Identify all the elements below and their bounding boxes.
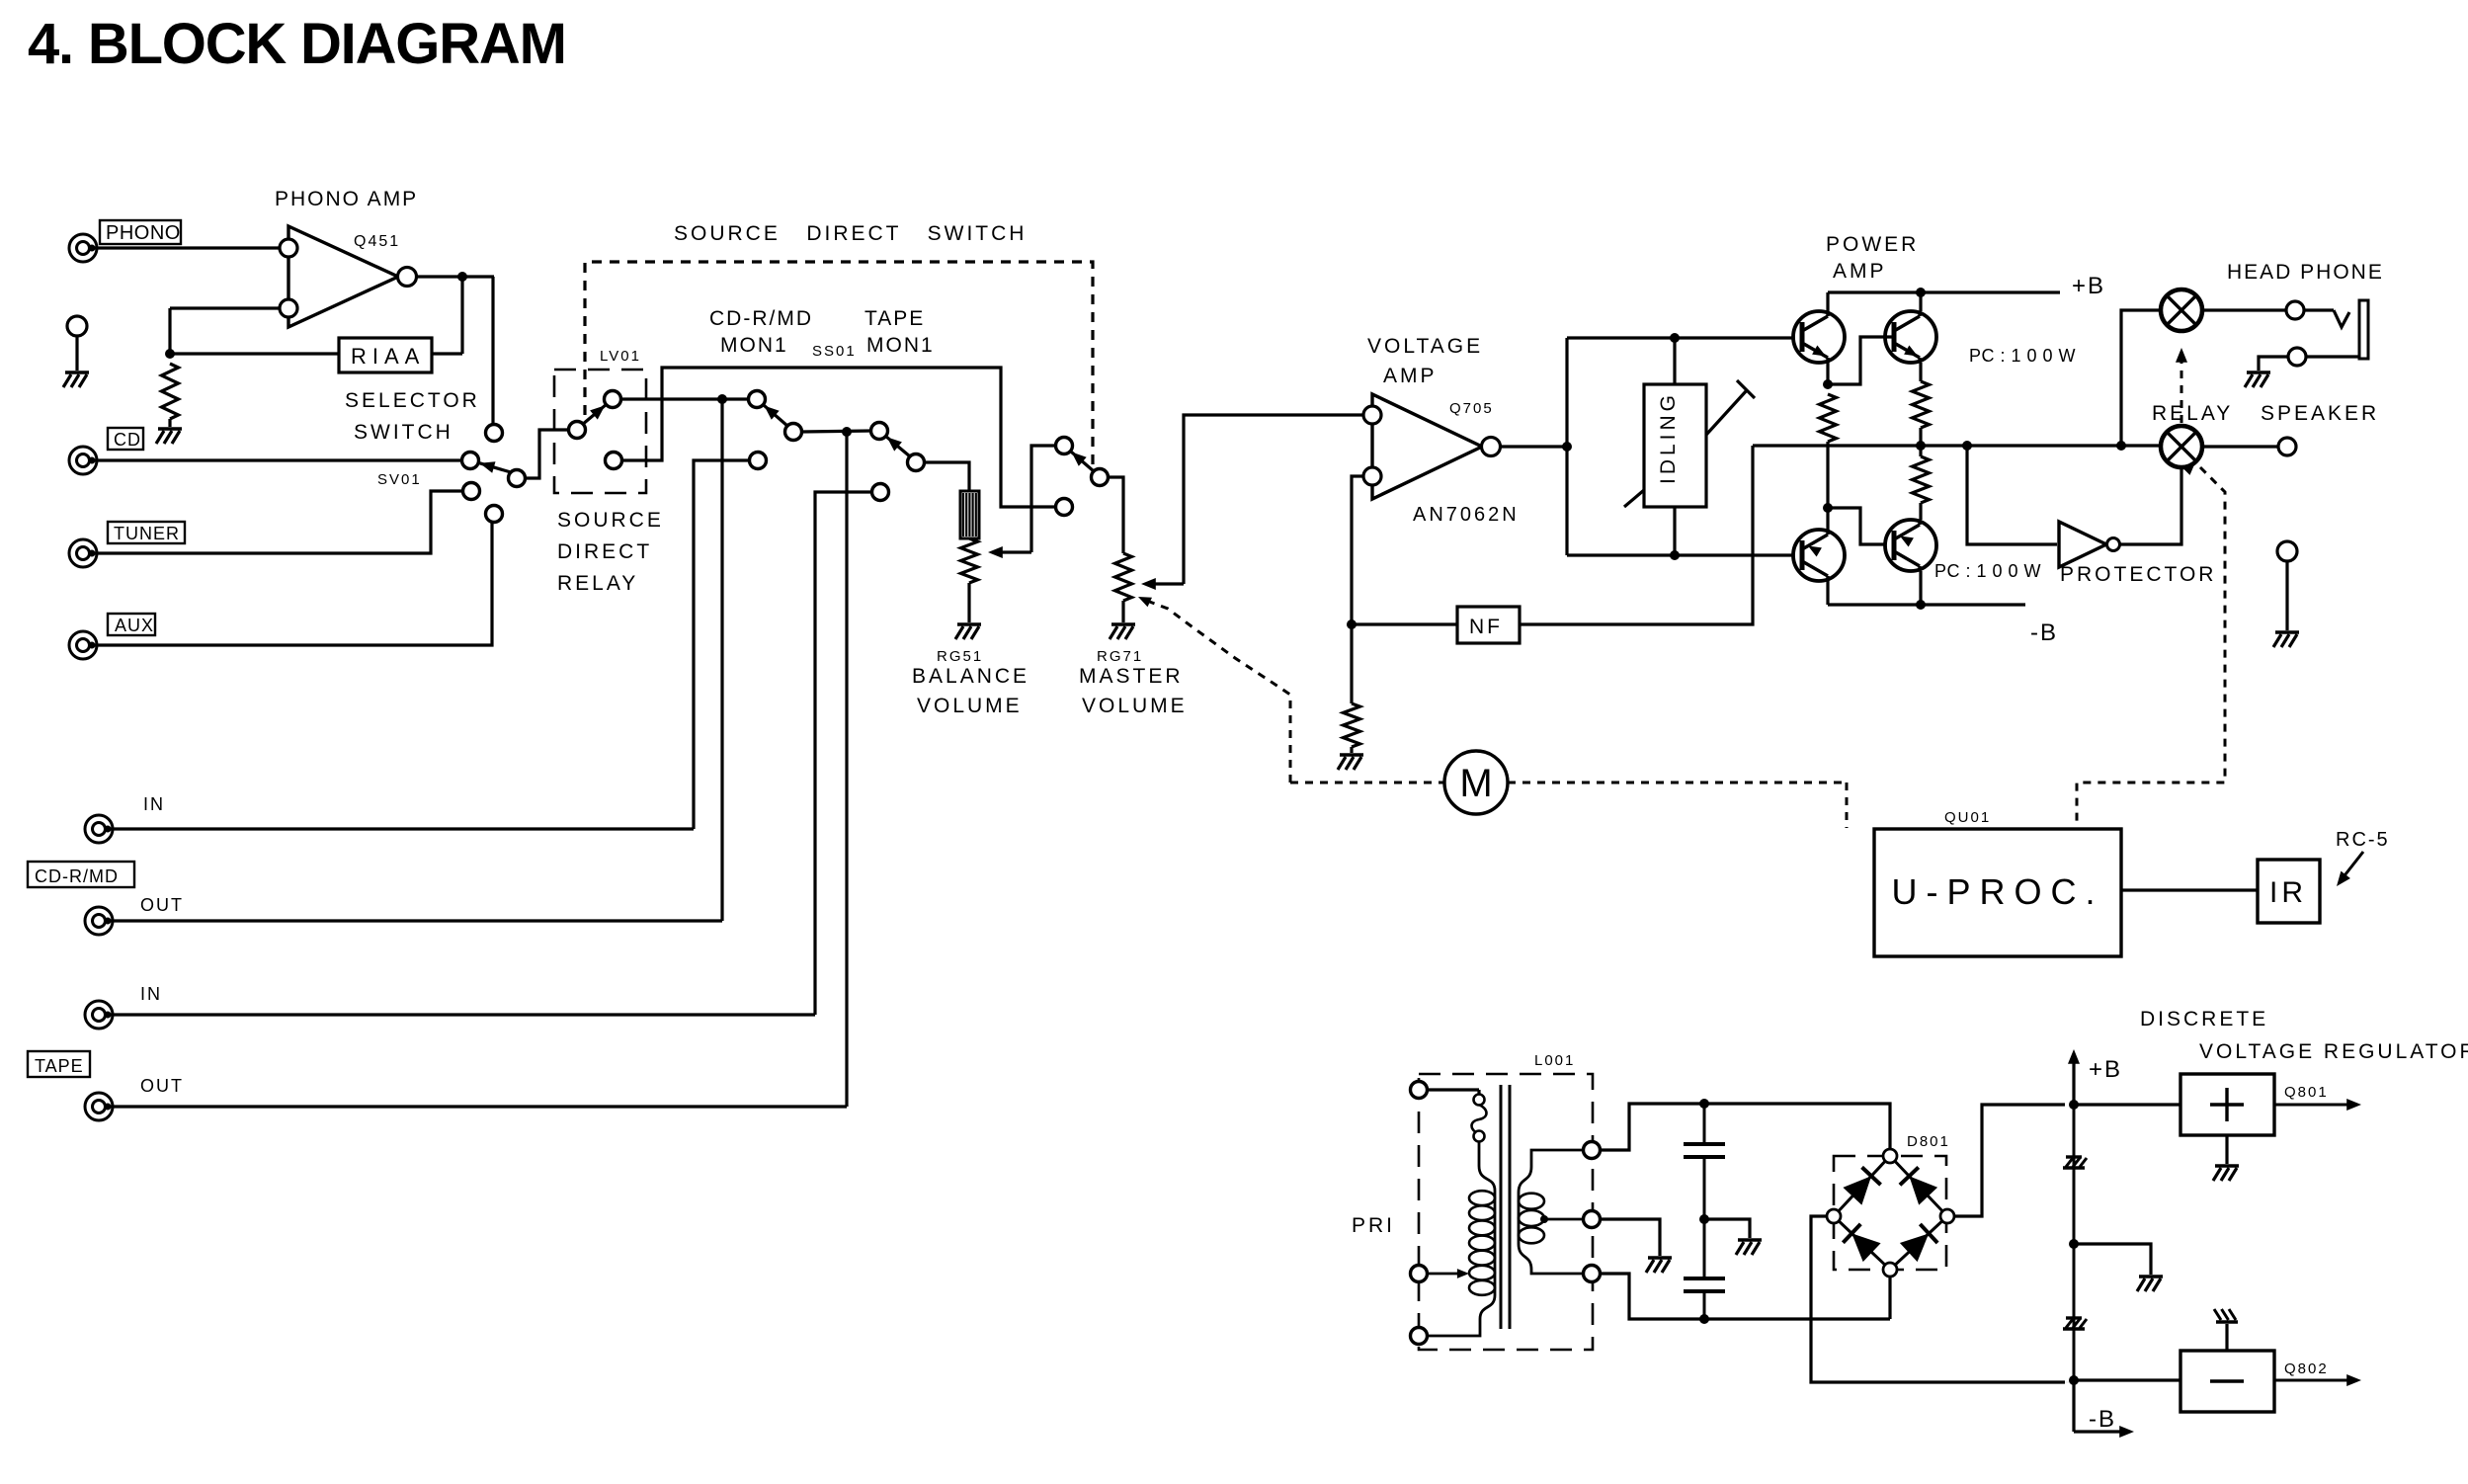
svg-text:Q801: Q801	[2284, 1084, 2329, 1101]
text DISCRETE	[2140, 1008, 2268, 1031]
label TAPE	[28, 1051, 90, 1077]
bridge vertex top	[1883, 1149, 1897, 1163]
node protector branch	[1962, 441, 1972, 451]
thermal fuse	[1427, 1090, 1495, 1191]
svg-text:CD: CD	[114, 430, 141, 450]
svg-text:M: M	[1459, 762, 1492, 805]
relay LV01 contacts	[569, 391, 622, 469]
regulator Q801 box	[2180, 1074, 2329, 1135]
wire secondary bottom to rail	[1600, 1274, 1890, 1319]
svg-text:SOURCE DIRECT SWITCH: SOURCE DIRECT SWITCH	[674, 222, 1027, 245]
relay contact speaker	[2161, 426, 2202, 467]
wire TAPE IN	[108, 1013, 815, 1016]
svg-text:SWITCH: SWITCH	[354, 421, 453, 444]
label RG71	[1097, 648, 1143, 665]
svg-text:VOLUME: VOLUME	[1082, 695, 1188, 717]
svg-text:RELAY: RELAY	[557, 572, 638, 595]
svg-text:SOURCE: SOURCE	[557, 509, 664, 532]
-B arrow	[2074, 1380, 2134, 1438]
RCA jack AUX	[69, 631, 97, 659]
source direct switch dashed box	[585, 222, 1093, 469]
resistor RG51	[961, 538, 978, 583]
primary terminal top	[1411, 1082, 1428, 1099]
label CD-R/MD	[28, 862, 134, 887]
node caps mid	[1699, 1214, 1709, 1224]
idling variable arrow	[1624, 380, 1755, 507]
wire protector to relay	[2120, 467, 2181, 544]
svg-text:Q451: Q451	[354, 233, 400, 250]
ground RG51	[955, 624, 981, 639]
svg-text:LV01: LV01	[600, 348, 641, 365]
headphone jack body	[2359, 300, 2368, 359]
svg-text:-B: -B	[2030, 619, 2058, 646]
text PC:100W top	[1969, 346, 2076, 366]
wire Q3 top	[1826, 508, 1829, 530]
wire tape rec-out to TAPE OUT	[845, 432, 848, 1107]
node headphone branch	[2116, 441, 2126, 451]
output rail	[1753, 444, 2161, 447]
node phono amp output	[457, 272, 467, 282]
node idling bottom	[1670, 550, 1680, 560]
transistor Q power-4	[1885, 520, 1936, 571]
selector switch SV01 contacts	[345, 389, 526, 523]
wire -B to regulator	[2065, 1380, 2180, 1382]
wire mid to ground	[2074, 1244, 2163, 1291]
RC-5 arrow	[2337, 852, 2363, 886]
RCA jack CD-R/MD OUT	[85, 895, 184, 935]
ground terminal near phono	[63, 316, 89, 387]
inverted ground Q802	[2214, 1309, 2238, 1351]
dashed motor line left	[1290, 782, 1444, 784]
text PROTECTOR	[2060, 563, 2216, 586]
wire RG51 to ground	[967, 583, 970, 622]
svg-text:PHONO: PHONO	[106, 222, 181, 244]
bridge D801 dashed box	[1834, 1133, 1950, 1270]
label AUX	[108, 614, 155, 635]
text PC:100W bottom	[1934, 561, 2041, 581]
svg-text:+B: +B	[2089, 1056, 2122, 1083]
node Q3 link	[1823, 503, 1833, 513]
label PHONO	[100, 220, 181, 244]
RIAA box	[339, 338, 432, 372]
switch master mon arrow	[1072, 453, 1094, 472]
ground RG71	[1110, 624, 1135, 639]
svg-text:AUX: AUX	[115, 616, 154, 635]
dashed control to speaker relay	[2077, 462, 2225, 828]
svg-text:MASTER: MASTER	[1079, 665, 1184, 688]
wire inverting input to NF	[1352, 476, 1363, 624]
capacitor C1	[1684, 1104, 1725, 1219]
svg-text:DISCRETE: DISCRETE	[2140, 1008, 2268, 1031]
svg-text:OUT: OUT	[140, 895, 184, 915]
RCA jack PHONO	[69, 234, 97, 262]
wire CD to selector	[92, 458, 462, 461]
wire Q4 bottom	[1919, 571, 1922, 605]
text PRI	[1352, 1214, 1395, 1237]
wire op-amp output	[416, 275, 494, 278]
svg-text:RIAA: RIAA	[351, 344, 425, 369]
svg-text:+B: +B	[2072, 273, 2105, 299]
wire voltage amp output	[1500, 445, 1567, 448]
wire tape mon lower contact to TAPE IN	[815, 492, 872, 1015]
wire selector pole to relay	[525, 430, 569, 478]
text HEAD PHONE	[2227, 261, 2384, 284]
text POWER AMP	[1826, 233, 1919, 283]
text SOURCE DIRECT RELAY	[557, 509, 664, 595]
RCA jack TAPE OUT	[85, 1076, 184, 1120]
wire to protector	[1967, 446, 2057, 544]
svg-text:DIRECT: DIRECT	[557, 540, 652, 563]
diode D801-d	[1900, 1224, 1937, 1262]
svg-text:POWER: POWER	[1826, 233, 1919, 256]
resistor RG71	[1115, 553, 1132, 601]
node output Q2	[1916, 441, 1926, 451]
wire CD-R/MD OUT	[108, 919, 722, 922]
selector pole arrow	[480, 461, 511, 473]
text MASTER VOLUME	[1079, 665, 1188, 717]
wire tape mon pole to balance	[924, 462, 969, 491]
switch master mon contacts	[1056, 438, 1109, 516]
text RC-5	[2336, 829, 2390, 851]
svg-text:HEAD PHONE: HEAD PHONE	[2227, 261, 2384, 284]
svg-text:PC : 1 0 0 W: PC : 1 0 0 W	[1969, 346, 2076, 366]
svg-text:QU01: QU01	[1944, 809, 1991, 826]
potentiometer RG51 body	[960, 491, 979, 538]
wire output down to selector	[491, 277, 494, 425]
wire sleeve to ground	[2245, 357, 2288, 387]
secondary winding	[1519, 1150, 1584, 1274]
U-PROC box QU01	[1874, 809, 2121, 956]
svg-text:RG71: RG71	[1097, 648, 1143, 665]
wire mon pole to tape mon	[801, 431, 871, 432]
Q802 output arrow	[2274, 1374, 2361, 1386]
svg-text:SV01: SV01	[377, 471, 422, 488]
node power input junction	[1562, 442, 1572, 452]
svg-text:MON1: MON1	[720, 334, 788, 357]
primary terminal mid	[1411, 1266, 1428, 1282]
title text	[28, 12, 566, 76]
protector inverter	[2059, 522, 2120, 567]
+B arrow up	[2068, 1049, 2122, 1105]
switch CD-R/MD MON1 contacts	[709, 307, 813, 469]
strike ground upper	[2063, 1105, 2087, 1244]
bridge vertex left	[1827, 1209, 1841, 1223]
svg-text:L001: L001	[1534, 1052, 1575, 1069]
primary terminal bottom	[1411, 1328, 1428, 1345]
transformer core	[1501, 1085, 1510, 1329]
op-amp Q451 phono amp	[275, 188, 418, 327]
diode D801-c	[1843, 1224, 1880, 1262]
svg-text:OUT: OUT	[140, 1076, 184, 1096]
svg-text:TAPE: TAPE	[864, 307, 925, 330]
relay LV01 dashed box	[554, 348, 646, 493]
wire to jack spring	[2304, 308, 2334, 311]
regulator Q802 box	[2180, 1351, 2329, 1412]
svg-text:SELECTOR: SELECTOR	[345, 389, 480, 412]
motor M	[1444, 751, 1508, 814]
svg-text:IN: IN	[140, 984, 162, 1004]
wire mon lower contact to CD-R/MD IN	[694, 460, 750, 829]
wire +B to regulator	[2074, 1103, 2180, 1106]
node rec-out branch	[717, 394, 727, 404]
IR box	[2258, 860, 2320, 923]
wire secondary top to rail	[1600, 1104, 1890, 1150]
dashed arrow relay link	[2176, 348, 2187, 423]
wire Q1 collector to +B rail	[1826, 292, 1829, 311]
wire CD-R/MD IN	[108, 827, 694, 830]
wire RG71 to ground	[1121, 601, 1124, 622]
svg-text:VOLTAGE: VOLTAGE	[1367, 335, 1483, 358]
node NF junction	[1347, 619, 1357, 629]
node -B junction	[2069, 1375, 2079, 1385]
svg-text:Q802: Q802	[2284, 1360, 2329, 1377]
svg-text:4. BLOCK DIAGRAM: 4. BLOCK DIAGRAM	[28, 12, 566, 76]
speaker terminal	[2278, 438, 2296, 455]
wire to headphone relay	[2121, 310, 2161, 446]
headphone jack spring	[2334, 310, 2349, 327]
wire phono jack to amp input	[92, 246, 280, 249]
svg-text:RC-5: RC-5	[2336, 829, 2390, 851]
secondary tap	[1540, 1215, 1584, 1223]
node tape rec-out branch	[842, 427, 852, 437]
wire sleeve to jack	[2306, 355, 2359, 358]
ground under phono resistor	[156, 419, 182, 444]
wire U-PROC to IR	[2121, 888, 2258, 891]
capacitor C2	[1684, 1219, 1725, 1319]
svg-text:VOLUME: VOLUME	[917, 695, 1023, 717]
secondary terminal top	[1584, 1142, 1601, 1159]
strike ground lower	[2063, 1244, 2087, 1380]
RCA jack CD	[69, 447, 97, 474]
wire drive splitter	[1567, 338, 1795, 555]
RCA jack TAPE IN	[85, 984, 162, 1029]
text SPEAKER	[2261, 402, 2379, 425]
svg-text:-B: -B	[2089, 1406, 2116, 1433]
wire master pole to RG71	[1108, 477, 1123, 553]
headphone sleeve terminal	[2288, 348, 2306, 366]
bridge diamond	[1834, 1156, 1947, 1270]
wire feedback top	[432, 277, 462, 354]
label TUNER	[108, 522, 185, 543]
label RG51	[937, 648, 983, 665]
svg-text:CD-R/MD: CD-R/MD	[35, 866, 119, 886]
svg-text:IR: IR	[2269, 876, 2307, 909]
svg-text:PC : 1 0 0 W: PC : 1 0 0 W	[1934, 561, 2041, 581]
NF box	[1457, 607, 1520, 643]
svg-text:Q705: Q705	[1449, 400, 1494, 417]
transistor Q power-1	[1793, 311, 1845, 363]
svg-text:VOLTAGE REGULATOR: VOLTAGE REGULATOR	[2199, 1040, 2468, 1063]
svg-text:RELAY: RELAY	[2152, 402, 2233, 425]
switch TAPE MON1 contacts	[812, 307, 935, 501]
svg-text:PRI: PRI	[1352, 1214, 1395, 1237]
resistor phono load	[162, 364, 179, 419]
wire feedback to inverting input	[170, 308, 339, 354]
label CD	[108, 428, 143, 450]
svg-text:D801: D801	[1907, 1133, 1950, 1150]
wire AUX to selector	[92, 522, 492, 645]
RCA jack TUNER	[69, 539, 97, 567]
svg-text:SPEAKER: SPEAKER	[2261, 402, 2379, 425]
switch CD-R/MD MON1 arrow	[765, 406, 788, 426]
svg-text:TUNER: TUNER	[114, 524, 180, 543]
wire Q2 collector	[1919, 292, 1922, 311]
svg-text:SS01: SS01	[812, 343, 857, 360]
resistor voltage amp ground leg	[1344, 703, 1360, 747]
svg-text:AMP: AMP	[1833, 260, 1887, 283]
wire Q3 emitter to -B rail	[1826, 581, 1829, 605]
wiper RG71 to voltage amp	[1141, 415, 1362, 590]
node cap2 bottom	[1699, 1314, 1709, 1324]
diode D801-a	[1843, 1167, 1880, 1204]
dashed motor line right	[1508, 783, 1847, 828]
bridge vertex bottom	[1883, 1263, 1897, 1277]
secondary terminal mid	[1584, 1211, 1601, 1228]
wire caps mid to ground	[1704, 1219, 1762, 1255]
op-amp Q705 voltage amp	[1363, 335, 1520, 526]
wire TAPE OUT	[108, 1105, 847, 1108]
node +B Q2	[1916, 288, 1926, 297]
relay LV01 arrow	[582, 405, 605, 425]
wire lower pair link	[1828, 447, 1894, 544]
Q801 output arrow	[2274, 1099, 2361, 1111]
speaker ground terminal	[2273, 541, 2299, 647]
svg-text:AN7062N: AN7062N	[1413, 504, 1520, 526]
text BALANCE VOLUME	[912, 665, 1029, 717]
text VOLTAGE REGULATOR	[2199, 1040, 2468, 1063]
text RELAY	[2152, 402, 2233, 425]
wire LV01 upper contact to mon switch	[620, 397, 749, 400]
wire NF right to output rail	[1520, 446, 1753, 624]
relay contact headphone	[2161, 289, 2202, 331]
wire bridge bottom	[1888, 1277, 1891, 1319]
svg-text:PROTECTOR: PROTECTOR	[2060, 563, 2216, 586]
svg-text:PHONO AMP: PHONO AMP	[275, 188, 418, 210]
node cap1 top	[1699, 1099, 1709, 1109]
svg-text:U-PROC.: U-PROC.	[1892, 871, 2104, 912]
transistor Q power-3	[1793, 530, 1845, 581]
node -B Q4	[1916, 600, 1926, 610]
primary tap arrow	[1427, 1269, 1469, 1278]
svg-text:NF: NF	[1469, 616, 1503, 638]
wiper arrow RG51	[988, 446, 1056, 558]
secondary terminal bottom	[1584, 1266, 1601, 1282]
headphone tip terminal	[2286, 301, 2304, 319]
wire relay to speaker terminal	[2202, 445, 2279, 448]
wire NF left	[1352, 622, 1457, 625]
primary winding	[1427, 1191, 1495, 1336]
svg-text:TAPE: TAPE	[35, 1056, 84, 1076]
wire TUNER to selector	[92, 491, 463, 553]
IDLING box	[1644, 338, 1706, 555]
resistor emitter Q1	[1820, 394, 1837, 447]
wire headphone relay to jack	[2202, 308, 2287, 311]
transformer L001 dashed box	[1419, 1052, 1593, 1350]
transistor Q power-2	[1885, 311, 1936, 363]
+B rail	[1828, 273, 2105, 299]
wire to resistor	[1350, 624, 1353, 703]
dashed wiper arrow from motor	[1138, 597, 1290, 783]
node mid ground junction	[2069, 1239, 2079, 1249]
ground voltage amp	[1338, 747, 1363, 770]
bridge vertex right	[1940, 1209, 1954, 1223]
-B rail	[1828, 605, 2058, 646]
RCA jack CD-R/MD IN	[85, 794, 165, 843]
resistor Q4 top	[1913, 446, 1930, 520]
svg-text:RG51: RG51	[937, 648, 983, 665]
node feedback junction	[165, 349, 175, 359]
wire LV01 lower contact bypass	[621, 368, 1056, 507]
switch TAPE MON1 arrow	[887, 437, 910, 456]
wire Q1 emitter to base Q2	[1828, 337, 1894, 384]
wire secondary mid to ground	[1600, 1219, 1672, 1273]
node Q1 emitter	[1823, 379, 1833, 389]
node +B junction	[2069, 1100, 2079, 1110]
svg-text:BALANCE: BALANCE	[912, 665, 1029, 688]
svg-text:IDLING: IDLING	[1657, 391, 1680, 484]
resistor emitter Q2	[1913, 363, 1930, 446]
svg-text:MON1: MON1	[866, 334, 935, 357]
wire rec-out to CD-R/MD OUT	[720, 399, 723, 921]
wire bridge left to -B	[1811, 1216, 2065, 1382]
diode D801-b	[1900, 1167, 1937, 1204]
wire bridge right to +B	[1954, 1105, 2065, 1216]
ground Q801	[2213, 1135, 2239, 1181]
svg-text:AMP: AMP	[1383, 365, 1438, 387]
svg-text:CD-R/MD: CD-R/MD	[709, 307, 813, 330]
svg-text:IN: IN	[143, 794, 165, 814]
node idling top	[1670, 333, 1680, 343]
